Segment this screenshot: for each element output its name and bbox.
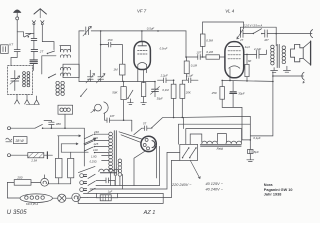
wire L5 down xyxy=(64,114,66,128)
switch S8 xyxy=(253,29,263,35)
svg-text:8μF: 8μF xyxy=(254,150,259,154)
transformer to bus wires xyxy=(111,173,123,189)
tube VF7 pins xyxy=(138,69,147,83)
field coil wiring loop xyxy=(190,134,202,144)
svg-text:1M: 1M xyxy=(113,67,118,71)
mains plug 3 xyxy=(80,188,96,193)
node xyxy=(157,30,159,32)
coil L3 with coupling box xyxy=(60,64,79,77)
plate arrow xyxy=(237,28,244,39)
bus wire 1 xyxy=(96,146,160,185)
coil L1 in box xyxy=(23,72,30,87)
svg-text:150: 150 xyxy=(107,38,112,42)
wire A1 down xyxy=(33,25,35,39)
resistor 1M xyxy=(113,45,125,82)
socket wires xyxy=(119,132,142,143)
ground T1 xyxy=(128,99,134,105)
svg-text:VF 7: VF 7 xyxy=(137,8,147,13)
wire corner down xyxy=(185,31,187,57)
ground fork 2 xyxy=(25,95,30,104)
ground link wire xyxy=(26,104,39,106)
svg-text:38 W: 38 W xyxy=(15,139,24,143)
wire tap row 4 xyxy=(61,151,88,153)
coil L4 xyxy=(56,81,64,95)
resistor 20K xyxy=(180,80,191,117)
svg-text:2T: 2T xyxy=(39,50,45,54)
capacitor trimmer block xyxy=(30,60,37,64)
capacitor 10T gram xyxy=(105,114,132,123)
svg-text:Nora: Nora xyxy=(264,183,274,187)
selector arrow xyxy=(190,161,200,179)
terminal A1 xyxy=(32,21,35,25)
main vertical wire xyxy=(78,31,80,82)
resistor 50K xyxy=(112,82,126,121)
wire loop left xyxy=(7,182,19,198)
barretter U3505 xyxy=(20,194,52,203)
capacitor 8uF xyxy=(248,149,259,154)
field coil Feld xyxy=(200,141,241,151)
jack 2 xyxy=(302,72,305,83)
capacitor 2,2uF b xyxy=(182,74,198,83)
wire to mains transformer xyxy=(131,120,133,131)
svg-text:Paganini GW 10: Paganini GW 10 xyxy=(264,188,293,192)
switch S2 xyxy=(47,51,55,54)
wire from E antenna down xyxy=(16,20,18,49)
speaker xyxy=(291,41,311,65)
wire right descend xyxy=(250,72,273,136)
svg-text:110: 110 xyxy=(93,148,98,152)
wire xyxy=(33,40,35,49)
capacitor 10T out xyxy=(262,30,269,42)
wire band bus xyxy=(42,56,56,74)
cathode wire xyxy=(222,78,273,82)
mains line wire xyxy=(8,127,85,130)
svg-text:0,1M: 0,1M xyxy=(162,88,169,92)
svg-text:0,5mF: 0,5mF xyxy=(160,46,168,50)
svg-text:2,2μF: 2,2μF xyxy=(253,47,261,51)
svg-text:380: 380 xyxy=(56,122,61,126)
capacitor 2T xyxy=(31,50,44,54)
resistor ballast 1 xyxy=(55,136,62,184)
bus wire 3 xyxy=(78,193,163,203)
capacitor 5T xyxy=(142,122,152,131)
node xyxy=(141,30,143,32)
capacitor 380 xyxy=(44,120,61,129)
wire outer loop 2 xyxy=(178,124,250,144)
svg-text:Feld: Feld xyxy=(217,147,223,151)
svg-text:220: 220 xyxy=(92,136,98,140)
lever low xyxy=(78,166,95,172)
svg-text:220 240V ~: 220 240V ~ xyxy=(171,183,192,187)
capacitor mains a xyxy=(96,178,115,186)
ground fork 1 xyxy=(15,95,20,104)
resistor 0,1M a xyxy=(162,79,176,117)
coil L5 in box xyxy=(58,105,73,114)
svg-text:KD 0,35 A: KD 0,35 A xyxy=(26,202,38,206)
earth antenna E xyxy=(13,10,21,20)
wire join down xyxy=(222,107,250,139)
wire A2 down xyxy=(41,25,43,42)
plate supply wire xyxy=(203,22,244,28)
svg-text:4a,6: 4a,6 xyxy=(245,45,251,49)
socket right wires xyxy=(156,146,158,178)
switch S6 xyxy=(134,128,142,134)
svg-text:2,5A: 2,5A xyxy=(30,159,37,163)
resistor 0,5M xyxy=(200,22,213,58)
svg-text:U 3505: U 3505 xyxy=(7,210,28,216)
svg-text:10T: 10T xyxy=(264,38,269,42)
svg-text:6K: 6K xyxy=(248,59,252,63)
cathode resistor xyxy=(141,83,145,97)
svg-text:0,2M: 0,2M xyxy=(206,50,213,54)
screen bus wire xyxy=(162,116,250,117)
capacitor 1uF block xyxy=(96,190,117,201)
wire to band box xyxy=(33,52,35,60)
svg-text:0,5M: 0,5M xyxy=(206,39,213,43)
svg-text:0,5μF: 0,5μF xyxy=(147,27,155,31)
band switch dashed box xyxy=(8,66,33,95)
wire xyxy=(217,134,226,142)
svg-text:0,1M: 0,1M xyxy=(191,63,198,67)
svg-text:VL 4: VL 4 xyxy=(225,8,235,13)
output transformer xyxy=(271,44,286,67)
jack 1 xyxy=(310,30,312,38)
transformer taps xyxy=(92,130,109,154)
svg-text:1μF: 1μF xyxy=(108,190,113,194)
socket lower wire xyxy=(134,151,145,186)
svg-text:1,9Ω: 1,9Ω xyxy=(91,154,97,158)
capacitor 2,2uF out xyxy=(244,47,267,59)
mains plug 2 xyxy=(80,181,96,186)
grid bus wire xyxy=(79,81,155,83)
padder capacitor Ca xyxy=(86,70,95,83)
electrolytic 30uF k xyxy=(230,81,245,108)
coil L2 RF xyxy=(60,46,71,58)
padder capacitor Cb xyxy=(96,74,105,83)
switch S5 xyxy=(127,90,133,99)
bus wire 4 xyxy=(88,160,180,197)
wire xyxy=(200,56,206,58)
wire xyxy=(243,33,253,35)
resistor 250 xyxy=(211,80,225,107)
selector lever main xyxy=(84,138,96,143)
svg-text:40 125V ~: 40 125V ~ xyxy=(206,182,224,186)
wire to jack xyxy=(267,33,312,35)
wire bus to selector xyxy=(183,117,185,128)
capacitor 150 xyxy=(100,38,123,47)
wire to jack 2 xyxy=(273,75,304,77)
ground T4 xyxy=(283,66,290,72)
secondary winding xyxy=(118,159,122,176)
svg-text:125: 125 xyxy=(93,142,98,146)
ground T2 xyxy=(141,97,147,105)
svg-text:50K: 50K xyxy=(112,90,118,94)
AC symbol xyxy=(6,138,12,142)
wire grid line xyxy=(100,31,102,77)
trimmer capacitor C2 xyxy=(83,26,91,36)
wire jog to switch xyxy=(17,32,23,37)
resistor 0,2M xyxy=(206,50,225,59)
resistor 6K xyxy=(245,54,252,81)
bus wire 2 xyxy=(90,152,180,189)
ground T3 xyxy=(271,68,278,73)
box 38W xyxy=(13,137,27,144)
wire outline box xyxy=(240,27,276,46)
switch S4 xyxy=(80,89,87,97)
dial lamp X xyxy=(52,194,71,202)
voltage selector box xyxy=(180,144,198,160)
wire outer loop xyxy=(186,129,242,145)
node xyxy=(123,81,125,83)
tube VL4 xyxy=(225,42,244,78)
resistor ballast 2 xyxy=(68,152,74,184)
electrolytic 30uF xyxy=(150,81,163,101)
svg-text:10T: 10T xyxy=(110,114,115,118)
mains transformer winding xyxy=(109,132,113,172)
switch mains xyxy=(35,124,42,128)
rectifier socket xyxy=(141,136,156,151)
selector bus vertical xyxy=(83,128,85,166)
fuse terminal xyxy=(8,154,11,157)
thermo switch xyxy=(72,193,88,201)
wire tap row 3 xyxy=(61,143,78,145)
svg-text:Jahr 1938: Jahr 1938 xyxy=(264,193,282,197)
variable capacitor C-tune xyxy=(10,71,20,91)
resistor 200 xyxy=(7,176,40,186)
wire link xyxy=(49,183,71,185)
svg-text:5T: 5T xyxy=(143,122,147,126)
phono jack xyxy=(91,102,108,120)
pilot lamp xyxy=(41,175,49,186)
transformer core xyxy=(114,131,116,176)
terminal A2 xyxy=(41,21,44,25)
svg-text:40 240V ~: 40 240V ~ xyxy=(206,188,224,192)
wire screen down xyxy=(249,116,251,149)
svg-text:AZ 1: AZ 1 xyxy=(143,210,156,216)
resistor 0,1M b xyxy=(184,57,197,80)
switch S7 xyxy=(151,118,162,129)
svg-text:200: 200 xyxy=(16,176,22,180)
capacitor 2,2uF a xyxy=(158,74,174,83)
node xyxy=(28,36,30,38)
svg-text:2,2μF: 2,2μF xyxy=(160,74,168,78)
svg-text:KT: KT xyxy=(9,43,14,47)
svg-text:2T: 2T xyxy=(239,38,243,42)
svg-text:30μF: 30μF xyxy=(238,92,245,96)
tube VF7 xyxy=(134,31,150,70)
wire A2 to coil xyxy=(42,42,54,50)
ground G5 xyxy=(247,154,254,162)
svg-text:240: 240 xyxy=(93,130,99,134)
tap wires low xyxy=(102,156,109,161)
ground fork 3 xyxy=(34,96,39,104)
svg-text:0,1μF: 0,1μF xyxy=(253,136,260,140)
svg-text:20K: 20K xyxy=(185,91,191,95)
svg-text:250: 250 xyxy=(211,91,217,95)
heater winding row xyxy=(99,169,119,173)
mains plug 1 xyxy=(80,174,96,179)
capacitor KT xyxy=(9,43,20,52)
capacitor ant pad xyxy=(31,38,37,40)
node xyxy=(250,139,252,141)
wire tap row 2 xyxy=(58,135,81,137)
wire to cap xyxy=(186,56,198,58)
capacitor 10T xyxy=(196,50,201,59)
top bus wire xyxy=(79,30,186,32)
wire below KT cap xyxy=(11,52,17,66)
switch S1 xyxy=(24,34,31,37)
svg-text:30μF: 30μF xyxy=(157,97,163,101)
svg-text:10T: 10T xyxy=(196,50,201,54)
wire branch left xyxy=(26,32,34,34)
antenna A arrow xyxy=(34,9,46,18)
antenna input box xyxy=(1,45,9,54)
node xyxy=(185,56,187,58)
svg-text:0,25Ω: 0,25Ω xyxy=(90,159,97,163)
capacitor 2T out xyxy=(239,30,243,42)
fuse 2,5A xyxy=(11,152,53,163)
tap levers xyxy=(84,135,93,151)
switch S3 xyxy=(48,74,56,78)
